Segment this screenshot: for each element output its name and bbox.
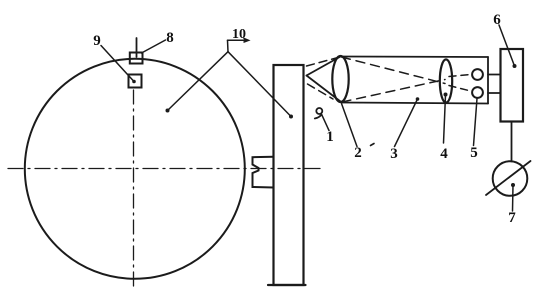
- small scan speck: [371, 144, 375, 146]
- leader line 10 to drum: [168, 52, 229, 111]
- leader dot 10 drum: [166, 109, 170, 113]
- leader line 2: [342, 104, 358, 147]
- leader dot 3: [416, 97, 420, 101]
- meter 7 needle diagonal: [486, 161, 531, 195]
- solid ray P to lens bottom: [307, 76, 341, 102]
- sensor square 9: [129, 75, 142, 88]
- svg-text:4: 4: [440, 146, 448, 162]
- svg-text:7: 7: [508, 210, 516, 226]
- leader vertical 10: [227, 40, 230, 51]
- lens 4 ellipse: [440, 59, 452, 102]
- box 6 (amplifier unit): [501, 49, 524, 122]
- dashed ray in tube ascending: [342, 80, 445, 103]
- leader line 6: [499, 25, 515, 66]
- svg-text:3: 3: [390, 146, 398, 162]
- leader line 8: [142, 40, 166, 53]
- leader line 7: [512, 185, 515, 211]
- dashed ray upper near plate: [307, 58, 339, 67]
- photodetector circle upper 5: [472, 69, 483, 80]
- leader dot 10 plate: [289, 115, 293, 119]
- leader line 5: [474, 99, 478, 146]
- dashed ray lower near plate: [308, 84, 334, 99]
- dashed ray lens4 to lower detector: [449, 86, 471, 92]
- meter 7 circle: [493, 161, 528, 196]
- leader line 10 to plate: [228, 52, 291, 117]
- vertical dash-dot centerline: [133, 90, 135, 288]
- leader dot 6: [513, 64, 517, 68]
- tube 3 body top edge: [341, 56, 488, 59]
- svg-text:9: 9: [93, 33, 101, 49]
- leader line 3: [395, 99, 418, 147]
- plate 10 (vertical wall): [274, 65, 304, 285]
- solid ray P to lens top: [307, 57, 341, 76]
- leader line 9: [101, 46, 134, 82]
- leader bar 10 with arrow: [228, 39, 249, 43]
- leader dot 4: [444, 93, 448, 97]
- lamp 1 (light source circle): [316, 108, 322, 114]
- leader dot 7: [511, 183, 515, 187]
- leader dot 9: [132, 80, 136, 84]
- wire from box 6 to meter 7: [511, 122, 513, 162]
- svg-text:6: 6: [493, 12, 501, 28]
- leader line 4: [444, 95, 446, 143]
- drum circle (rotary kiln shell): [25, 59, 245, 279]
- lamp 1 hook stroke: [315, 115, 322, 119]
- svg-text:5: 5: [470, 145, 478, 161]
- svg-text:8: 8: [166, 30, 174, 46]
- svg-text:1: 1: [326, 129, 334, 145]
- plate bottom base line: [268, 284, 306, 286]
- svg-text:2: 2: [354, 145, 362, 161]
- svg-text:10: 10: [232, 27, 246, 42]
- connector wire lower to box 6: [488, 92, 501, 94]
- leader line 1: [322, 115, 329, 131]
- horizontal dash-dot centerline: [8, 168, 322, 170]
- tube 3 bottom edge: [342, 103, 489, 104]
- dashed ray in tube descending: [342, 57, 446, 84]
- dashed ray lens4 to upper detector: [449, 75, 471, 77]
- pin 8 vertical wire: [136, 38, 138, 57]
- connector wire upper to box 6: [488, 74, 501, 76]
- photodetector circle lower 5: [472, 87, 483, 98]
- sensor square 8: [130, 53, 143, 64]
- tube 3 right edge: [487, 57, 489, 104]
- lens 2 (objective lens ellipse): [332, 56, 348, 102]
- bracket on plate left edge: [253, 157, 274, 188]
